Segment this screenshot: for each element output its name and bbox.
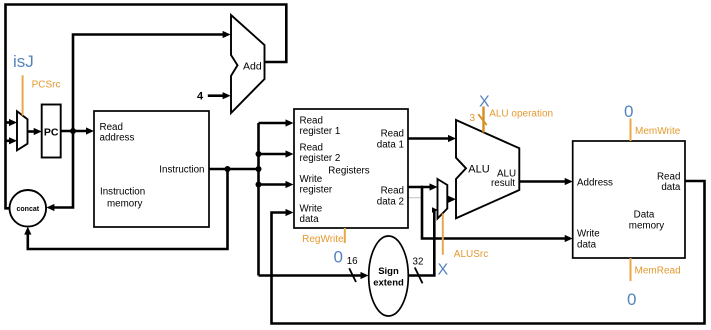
svg-text:ALU: ALU [468,163,489,175]
svg-text:Read: Read [381,186,404,197]
svg-text:32: 32 [413,257,424,268]
svg-text:MemWrite: MemWrite [635,126,681,137]
node bus junction write register [256,182,262,188]
svg-text:data: data [577,240,597,251]
control wire MemRead [630,258,632,281]
svg-text:memory: memory [629,221,664,232]
svg-text:ALU operation: ALU operation [489,109,553,120]
svg-text:16: 16 [347,256,358,267]
wire instruction vertical bus [257,123,260,276]
wire sign extend output up to ALUSrc mux input 1 [408,207,438,275]
svg-text:data 1: data 1 [377,140,404,151]
wire stub into PCSrc mux input 0 [6,119,18,126]
control wire ALU operation [482,107,484,133]
wire read data 2 to ALUSrc mux input 0 [408,183,438,190]
svg-text:Read: Read [657,172,680,183]
svg-text:Write: Write [300,174,323,185]
svg-text:0: 0 [624,102,633,121]
svg-text:Instruction: Instruction [159,164,204,175]
data memory box [573,141,685,258]
svg-text:Read: Read [381,129,404,140]
node bus junction instruction in [256,166,262,172]
wire bus to read register 2 [259,150,294,157]
wire instruction memory output to instruction bus [209,168,259,171]
wire bus to sign extend input [259,272,369,279]
svg-text:Instruction: Instruction [100,187,145,198]
wire 4 to Add input [208,92,231,99]
control wire MemWrite [630,119,632,142]
instruction memory box [94,111,209,227]
svg-text:3: 3 [470,113,476,124]
wire jump field down and left to concat bottom input [24,169,227,249]
slash bus width 16 [349,268,356,282]
wire Add output feedback loop to PCSrc mux / concat [6,5,287,209]
svg-text:0: 0 [334,248,343,267]
svg-text:Sign: Sign [378,266,399,277]
svg-text:data 2: data 2 [377,197,404,208]
wire bus to write register [259,181,294,188]
register PC [42,105,61,158]
svg-text:X: X [438,261,449,278]
wire read data 1 to ALU input [408,135,456,142]
wire ALU result to data memory address [519,178,572,185]
svg-text:4: 4 [197,91,204,103]
wire PC output to instruction memory read address [61,127,94,134]
svg-text:MemRead: MemRead [635,266,681,277]
node instruction branch to jump [225,166,231,172]
svg-text:concat: concat [17,206,40,213]
wire read data 2 down to data memory write data [422,187,573,242]
slash bus width 3 [478,114,486,125]
svg-text:data: data [661,182,681,193]
svg-text:data: data [300,214,320,225]
svg-text:PC: PC [44,126,59,138]
svg-text:extend: extend [373,278,404,289]
control wire PCSrc [22,75,24,115]
adder Add [231,15,265,113]
registers box [294,109,408,228]
svg-text:register: register [300,185,333,196]
wire PC junction down to concat right input [46,131,73,211]
control wire ALUSrc [442,214,444,255]
node read data 2 junction [421,186,424,189]
node PC output junction [70,128,76,134]
svg-text:Address: Address [577,178,613,189]
svg-text:Add: Add [243,61,262,73]
op-amp ALU [456,120,519,218]
svg-text:result: result [491,178,515,189]
svg-text:RegWrite: RegWrite [302,234,344,245]
slash bus width 32 [415,268,423,284]
mux ALUSrc [438,179,448,219]
svg-text:Registers: Registers [328,166,369,177]
svg-text:register 1: register 1 [300,126,341,137]
control wire RegWrite [344,228,346,243]
svg-text:address: address [100,133,135,144]
svg-text:isJ: isJ [13,52,34,71]
svg-text:memory: memory [107,199,142,210]
concat unit [10,190,47,227]
svg-text:Write: Write [300,204,323,215]
ghost line artifact [408,197,423,199]
wire PC junction up to Add input [73,31,231,131]
wire stub into PCSrc mux input 1 [6,137,18,144]
wire memory read data writeback to registers write data [272,181,705,324]
node bus junction read register 2 [256,151,262,157]
svg-text:0: 0 [627,290,636,309]
svg-text:register 2: register 2 [300,153,341,164]
mux PCSrc [17,111,28,150]
svg-text:Data: Data [634,210,655,221]
svg-text:PCSrc: PCSrc [32,80,61,91]
svg-text:Read: Read [300,116,323,127]
wire PCSrc mux output to PC [28,128,42,135]
svg-text:Read: Read [300,143,323,154]
wire ALUSrc mux output to ALU input [447,196,456,203]
sign extend unit [369,236,409,316]
svg-text:ALUSrc: ALUSrc [454,249,488,260]
svg-text:Write: Write [577,229,600,240]
svg-text:Read: Read [100,122,123,133]
wire bus to read register 1 [259,119,294,126]
